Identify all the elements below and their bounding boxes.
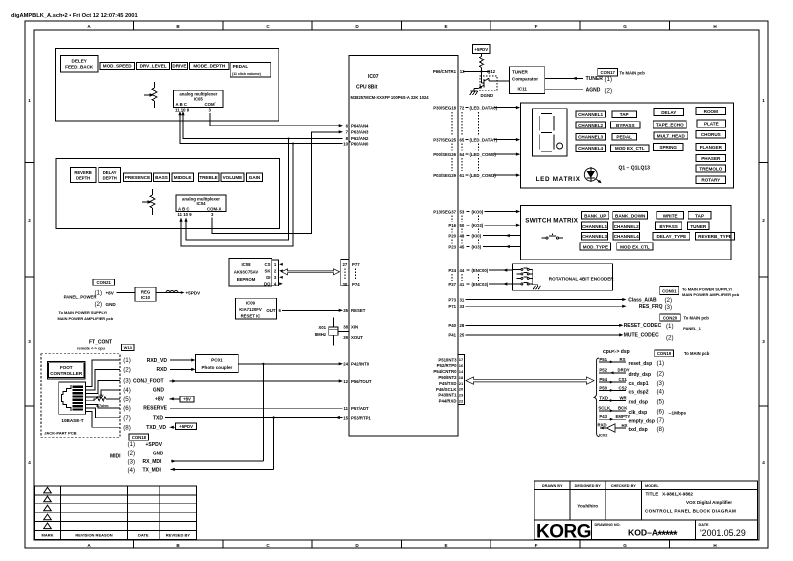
svg-text:+5PDV: +5PDV [179,424,193,429]
svg-text:remote <-> cpu: remote <-> cpu [77,346,106,351]
svg-text:P43/INT1: P43/INT1 [438,393,457,398]
svg-text:RES_FRQ: RES_FRQ [639,304,663,310]
svg-text:P20: P20 [448,233,456,238]
svg-text:P46/SCLK: P46/SCLK [436,387,457,392]
svg-text:XOUT: XOUT [351,335,363,340]
revision table [35,486,197,539]
svg-text:P50/INT2: P50/INT2 [438,375,457,380]
svg-text:DELAY: DELAY [103,170,117,175]
svg-text:BANK_UP: BANK_UP [584,213,606,218]
svg-text:TUNER: TUNER [512,70,529,75]
svg-text:(2): (2) [95,301,103,308]
control DRIVE [172,62,188,69]
svg-text:MOD EX_CTL: MOD EX_CTL [615,146,645,151]
svg-text:WR: WR [620,395,628,400]
svg-text:REG: REG [141,289,151,294]
LED buttons column 2 [611,111,649,152]
svg-text:P63/AN3: P63/AN3 [351,130,369,135]
EEPROM IC08 [229,259,272,287]
dashed box JACK-PART PCB [41,354,120,438]
svg-text:CS: CS [265,262,271,267]
wire: P73 to Class_A/AB [448,297,672,304]
wire: RXD_VD into PC01 [170,358,196,361]
svg-text:14: 14 [459,369,464,374]
border column letters top [87,24,717,29]
svg-text:4.7ohm: 4.7ohm [96,404,109,408]
svg-text:EEPROM: EEPROM [237,277,256,282]
svg-text:To MAIN pcb: To MAIN pcb [684,315,710,320]
border row ticks right [759,163,768,407]
svg-text:CONTROLLER: CONTROLLER [50,371,83,376]
dashed bus continuation marks (LED) [452,112,479,171]
svg-text:JACK-PART PCB: JACK-PART PCB [44,431,76,436]
svg-text:(1): (1) [666,323,674,330]
svg-text:rxd_dsp: rxd_dsp [629,400,648,406]
wire: RX_MDI to PC01 output net [171,364,263,463]
svg-text:CHANNEL4: CHANNEL4 [578,146,603,151]
svg-text:ROTARY: ROTARY [701,178,720,183]
svg-text:BASS: BASS [155,175,168,180]
svg-text:P45/TXD: P45/TXD [439,381,456,386]
svg-text:P60/AN0: P60/AN0 [351,141,369,146]
svg-text:OUT: OUT [266,308,275,313]
svg-text:CHORUS: CHORUS [701,132,721,137]
svg-text:RESERVE: RESERVE [143,406,167,412]
svg-text:4: 4 [28,460,31,465]
bus double-arrow CPU to CON19 [466,377,594,384]
svg-text:3: 3 [209,108,212,113]
svg-text:65: 65 [460,137,465,142]
pin 7 empty_dsp [599,414,664,424]
regulator IC10 [135,287,156,301]
svg-text:M38257MCM-XXXFP 100P6S-A 32K 1: M38257MCM-XXXFP 100P6S-A 32K 1024 [351,95,430,100]
switch buttons row 1 [582,212,711,220]
pin 8 txd_dsp with inverter IC02 [598,422,665,437]
svg-text:To MAIN POWER SUPPLY/: To MAIN POWER SUPPLY/ [59,310,109,315]
pin 1 reset_dsp [599,357,664,367]
analog multiplexer IC04 [176,195,226,217]
svg-text:(LED_DATA0): (LED_DATA0) [470,105,498,110]
svg-text:P54/CNTR0: P54/CNTR0 [433,369,457,374]
svg-text:TREMOLO: TREMOLO [699,166,722,171]
svg-text:11 10 9: 11 10 9 [175,108,190,113]
svg-text:3: 3 [211,212,214,217]
ground DGND [470,91,493,98]
wire: TUNER (1) [545,76,612,83]
svg-text:IC02: IC02 [599,433,608,438]
svg-text:D: D [355,543,359,548]
svg-text:17: 17 [459,357,464,362]
svg-text:IC07: IC07 [368,74,379,80]
svg-text:HX: HX [622,423,628,428]
border row numbers left [28,98,31,465]
svg-text:A: A [87,24,91,29]
pin 3 cs_dsp1 [599,377,664,387]
border column letters bottom [87,543,717,548]
svg-text:P53/RTP1: P53/RTP1 [351,415,371,420]
analog multiplexer IC05 [174,90,223,112]
svg-text:CS1: CS1 [619,377,628,382]
svg-text:(ENC00): (ENC00) [472,268,489,273]
label FT_CONT remote-cpu [77,340,112,351]
svg-text:2: 2 [28,218,31,223]
svg-text:--1Mbps: --1Mbps [669,410,687,415]
svg-text:P42/INT0: P42/INT0 [351,362,370,367]
control MIDDLE [172,173,194,181]
encoder ground [533,285,541,290]
svg-text:E: E [444,24,447,29]
bus double-arrow IC08 to CPU P77-P74 [282,269,340,275]
svg-text:MUTE_CODEC: MUTE_CODEC [624,333,659,339]
control DELEY FEED_BACK [61,55,99,71]
supply box +5PDV [170,423,197,429]
svg-text:TITLE X-9861,X-9862: TITLE X-9861,X-9862 [646,492,694,497]
svg-text:RXD: RXD [156,367,167,373]
control BASS [154,173,170,181]
svg-text:MOD EX_CTL: MOD EX_CTL [620,245,650,250]
svg-text:P23: P23 [448,244,456,249]
svg-text:IC10: IC10 [141,295,151,300]
pin 4 cs_dsp2 [599,385,664,395]
svg-text:GND: GND [153,388,165,394]
LED buttons column 4 [696,108,726,184]
svg-text:(2): (2) [657,371,665,378]
svg-text:+8V: +8V [155,397,165,403]
svg-text:W13: W13 [124,345,133,350]
wire: AGND (2) [545,87,612,94]
svg-text:(1): (1) [657,360,665,367]
svg-text:MULT_HEAD: MULT_HEAD [657,134,686,139]
CON19 pin rows [598,357,687,438]
svg-text:Photo coupler: Photo coupler [201,365,232,370]
svg-text:(KI0): (KI0) [472,233,482,238]
svg-text:H: H [713,543,717,548]
svg-text:DATE: DATE [138,533,149,538]
svg-text:2: 2 [274,269,277,274]
svg-text:P66/CNTR1: P66/CNTR1 [433,69,457,74]
switch buttons row 2 [582,222,710,230]
svg-text:WRITE: WRITE [663,213,678,218]
svg-text:21: 21 [459,381,464,386]
svg-text:KORG: KORG [536,522,591,543]
border row ticks left [25,163,34,407]
CPU right pins: dsp interface group [433,357,457,403]
svg-text:TUNER: TUNER [690,224,707,229]
svg-text:P52/RTP0: P52/RTP0 [437,363,457,368]
svg-text:TREBLE: TREBLE [199,175,217,180]
resistor 4.7ohm 1W in +8V line [96,394,109,408]
LED buttons column 3 [653,108,687,150]
svg-text:txd_dsp: txd_dsp [629,427,648,433]
foot connector signal names [133,358,168,431]
svg-text:KIA7120FV: KIA7120FV [239,307,262,312]
svg-text:2: 2 [762,218,765,223]
svg-text:(1): (1) [605,76,613,83]
svg-text:11: 11 [343,406,348,411]
svg-text:DEPTH: DEPTH [76,176,90,181]
resistor (pull-up) [480,54,484,72]
svg-text:28: 28 [460,323,465,328]
control REVERB DEPTH [70,167,96,182]
svg-text:A: A [87,543,91,548]
wire: P40 to RESET_CODEC [448,323,673,330]
svg-text:X01: X01 [318,325,326,330]
svg-text:P13/SEG37: P13/SEG37 [433,209,456,214]
svg-text:P03/SEG29: P03/SEG29 [433,173,456,178]
svg-text:KOD–A: KOD–A [628,528,658,538]
svg-text:P51/INT3: P51/INT3 [438,357,457,362]
LED MATRIX box [521,103,734,188]
svg-text:27: 27 [343,262,348,267]
svg-text:8: 8 [346,136,349,141]
svg-text:RESET_CODEC: RESET_CODEC [624,323,662,329]
svg-text:CON01: CON01 [662,288,677,293]
IC08 pin-number box (pins 1-4) [272,260,283,287]
border column ticks bottom [134,540,670,548]
svg-text:(3): (3) [128,459,136,466]
supply box +8V [170,396,195,402]
svg-text:GND: GND [153,451,164,456]
svg-text:IC05: IC05 [194,97,204,102]
svg-text:P50: P50 [599,385,607,390]
svg-text:35: 35 [343,308,348,313]
svg-text:CON20: CON20 [663,316,678,321]
svg-text:To MAIN pcb: To MAIN pcb [684,351,710,356]
transistor Q12 [474,69,509,91]
svg-text:TAPE_ECHO: TAPE_ECHO [656,123,684,128]
svg-text:CHANNEL1: CHANNEL1 [578,112,603,117]
svg-text:F: F [535,24,538,29]
control DELAY DEPTH [99,167,121,182]
svg-text:RESET: RESET [351,308,366,313]
svg-text:7: 7 [346,130,349,135]
encoder switch contacts [513,268,538,285]
svg-text:GAIN: GAIN [249,175,261,180]
connector CON21 [93,279,116,308]
svg-text:MAIN POWER AMPLIFIER pcb: MAIN POWER AMPLIFIER pcb [682,292,740,297]
svg-text:PANEL_POWER: PANEL_POWER [64,294,98,299]
svg-text:B: B [176,24,180,29]
CPU right pins: encoder signals [448,268,512,287]
svg-text:DRIVE: DRIVE [172,64,186,69]
svg-text:ROOM: ROOM [704,109,718,114]
revision mark triangles [44,487,52,493]
svg-text:16: 16 [459,363,464,368]
svg-text:(2): (2) [128,450,136,457]
svg-text:D: D [355,24,359,29]
wire: RXD into PC01 [170,368,196,371]
svg-text:DEPTH: DEPTH [103,176,117,181]
svg-text:DELEY: DELEY [72,59,87,64]
svg-text:(2): (2) [605,87,613,94]
svg-text:41: 41 [460,282,465,287]
svg-text:TX_MDI: TX_MDI [143,468,162,474]
svg-text:empty_dsp: empty_dsp [629,418,655,424]
svg-text:COM˝: COM˝ [205,102,217,107]
rotational encoder box [513,264,615,291]
svg-text:REVERB: REVERB [74,170,91,175]
svg-text:SWITCH MATRIX: SWITCH MATRIX [525,218,578,225]
svg-text:FLANGER: FLANGER [700,145,723,150]
svg-text:4: 4 [762,460,765,465]
svg-text:ROTATIONAL 4BIT ENCODER: ROTATIONAL 4BIT ENCODER [549,277,615,282]
svg-text:39: 39 [343,335,348,340]
svg-text:REVISION REASON: REVISION REASON [75,533,112,538]
svg-text:DO: DO [264,282,271,287]
svg-text:TUNER: TUNER [586,76,604,82]
RJ45 jack 10BASE-T [59,382,86,423]
svg-text:(8): (8) [657,426,665,433]
svg-text:P51: P51 [599,357,607,362]
svg-text:BYPASS: BYPASS [659,224,678,229]
svg-text:(3): (3) [123,378,131,385]
svg-text:61: 61 [460,173,465,178]
svg-text:P54: P54 [599,377,607,382]
svg-text:COM-X: COM-X [207,206,221,211]
svg-text:BCK: BCK [618,406,628,411]
supply box +5PDV (tuner pull-up) [472,45,490,54]
svg-text:CPU 8Bit: CPU 8Bit [356,85,378,91]
svg-text:DRAWN BY: DRAWN BY [542,484,563,488]
svg-text:PHASER: PHASER [701,156,721,161]
svg-text:Q12: Q12 [487,69,496,74]
svg-text:P41: P41 [448,333,456,338]
svg-text:(3): (3) [657,380,665,387]
connector CON19 [655,350,710,357]
svg-text:P77: P77 [352,262,360,267]
control MODE_DEPTH [190,62,229,69]
svg-text:RXD_VD: RXD_VD [147,358,168,364]
CPU pin-number box (dsp group) [458,355,465,405]
svg-text:PLATE: PLATE [704,122,719,127]
svg-text:REVISED BY: REVISED BY [166,533,191,538]
CPU right pins: switch matrix signals [433,209,520,249]
svg-text:BYPASS: BYPASS [616,123,635,128]
svg-text:(KO0): (KO0) [472,209,484,214]
svg-text:IC04: IC04 [196,201,206,206]
svg-text:AGND: AGND [586,88,601,94]
svg-text:P43: P43 [599,414,607,419]
svg-text:CON19: CON19 [657,351,672,356]
svg-text:P40: P40 [448,323,456,328]
svg-text:TXD: TXD [153,415,163,421]
control DRV_LEVEL [137,62,170,69]
svg-text:G: G [623,543,627,548]
svg-text:31: 31 [460,297,465,302]
potentiometer (group 1) [144,82,157,108]
svg-text:+8V: +8V [183,397,191,402]
svg-text:'2001.05.29: '2001.05.29 [700,528,746,538]
svg-text:A B C: A B C [176,102,188,107]
pin 6 clk_dsp [598,406,686,416]
control PRESENCE [123,173,151,181]
svg-text:cpu<-> dsp: cpu<-> dsp [603,349,630,355]
svg-text:64: 64 [460,152,465,157]
LED symbol [584,167,601,183]
jack fan-out wires to connector pins [86,360,120,427]
svg-text:(4): (4) [123,387,131,394]
group box: drive/mod controls [56,49,279,121]
svg-text:CHECKED BY: CHECKED BY [611,484,637,488]
svg-text:TAP: TAP [695,213,704,218]
svg-text:DESIGNED BY: DESIGNED BY [575,484,602,488]
svg-text:18: 18 [459,375,464,380]
pin 5 rxd_dsp [599,395,664,405]
svg-text:12: 12 [343,379,348,384]
wire: TX_MDI from TXD net [171,418,274,472]
svg-text:38: 38 [343,324,348,329]
svg-text:P30/SEG18: P30/SEG18 [433,105,456,110]
svg-text:30: 30 [343,282,348,287]
svg-text:24: 24 [343,362,348,367]
wire: IC05 COM to CPU P64/AN4 [210,113,343,127]
svg-text:RX_MDI: RX_MDI [143,459,163,465]
svg-text:Comparator: Comparator [512,77,538,82]
svg-text:DELAY_TYPE: DELAY_TYPE [657,234,687,239]
dashed bus continuation marks (switch) [452,216,479,244]
svg-text:FOOT: FOOT [60,365,73,370]
svg-text:P00/SEG26: P00/SEG26 [433,152,456,157]
svg-text:+SPDV: +SPDV [146,442,163,448]
wire: CONJ_FOOT to CPU P56/TOUT [170,379,372,384]
svg-text:P74: P74 [352,282,360,287]
wire: select bus B (CPU P60/AN0 to IC05/IC04) [178,111,342,246]
svg-text:MOD_SPEED: MOD_SPEED [103,64,133,69]
control GAIN [246,173,262,181]
wire: CPU P66/CNTR1 to Q12 [433,69,490,74]
wire: P41 to MUTE_CODEC [448,333,673,342]
border row numbers right [762,98,765,465]
svg-text:CON17: CON17 [601,70,616,75]
svg-text:(6): (6) [657,409,665,416]
svg-text:(KI3): (KI3) [472,244,482,249]
svg-text:P56/TOUT: P56/TOUT [351,379,372,384]
svg-text:SPRING: SPRING [659,145,677,150]
svg-text:DI: DI [266,275,270,280]
CPU pin box 27-30 (P77-P74) [341,260,360,288]
svg-text:10: 10 [343,141,348,146]
svg-text:To MAIN pcb: To MAIN pcb [620,71,646,76]
svg-text:MAIN POWER AMPLIFIER pcb: MAIN POWER AMPLIFIER pcb [58,316,114,321]
svg-text:CON21: CON21 [97,280,112,285]
control PEDAL (11 click volume) [230,62,271,77]
svg-text:CHANNEL2: CHANNEL2 [614,224,639,229]
svg-text:+8V: +8V [106,290,115,295]
svg-text:44: 44 [460,268,465,273]
svg-text:MODEL: MODEL [645,484,659,488]
svg-text:PRESENCE: PRESENCE [125,175,150,180]
svg-text:FEED_BACK: FEED_BACK [65,65,94,70]
wire: IC04 COM to CPU P63/AN3 [212,130,343,233]
note: to main power supply [58,310,114,321]
comparator IC11 [509,67,544,94]
svg-text:CON18: CON18 [132,435,147,440]
svg-text:(ENC03): (ENC03) [472,282,489,287]
svg-text:AK93C75AV: AK93C75AV [234,270,259,275]
svg-text:PANEL_1: PANEL_1 [683,326,701,331]
connector CON01 [660,286,740,296]
svg-text:6: 6 [346,124,349,129]
svg-text:DATE: DATE [699,523,710,527]
svg-text:reset_dsp: reset_dsp [629,361,653,367]
svg-text:cs_dsp2: cs_dsp2 [629,390,649,396]
svg-text:C: C [266,543,270,548]
svg-text:drdy_dsp: drdy_dsp [629,372,652,378]
svg-text:DELAY: DELAY [661,110,676,115]
svg-text:cs_dsp1: cs_dsp1 [629,381,649,387]
svg-text:(2): (2) [123,367,131,374]
svg-text:13: 13 [460,69,465,74]
